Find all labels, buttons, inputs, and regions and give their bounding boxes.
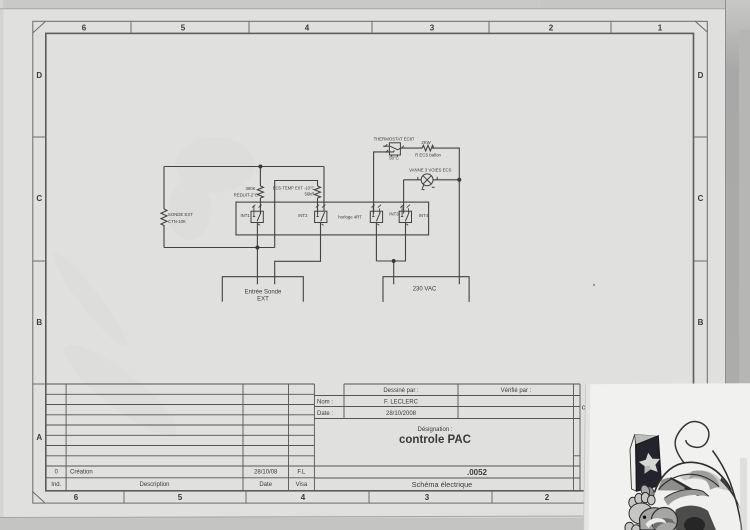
svg-text:horloge 4RT: horloge 4RT [338, 215, 362, 220]
svg-text:A: A [36, 433, 42, 442]
wire INT1 output [256, 223, 258, 285]
pebble ovals below book [644, 485, 656, 499]
shell outline [654, 462, 731, 492]
svg-text:Date: Date [259, 482, 272, 488]
svg-text:.0052: .0052 [467, 468, 488, 477]
shell inner arc [659, 474, 720, 489]
resistor ECS-TEMP 56kR [315, 186, 321, 198]
svg-text:c: c [582, 405, 586, 412]
switch INT2 [315, 205, 327, 226]
wire INT4 output [376, 223, 405, 262]
svg-text:D: D [36, 71, 42, 80]
revision table left [46, 383, 315, 385]
svg-text:controle PAC: controle PAC [399, 434, 471, 446]
svg-text:2KW: 2KW [421, 140, 431, 145]
svg-text:VANNE 3 VOIES ECS: VANNE 3 VOIES ECS [409, 168, 452, 173]
svg-text:Entrée Sonde: Entrée Sonde [245, 289, 282, 295]
svg-text:Vérifié par :: Vérifié par : [501, 388, 532, 394]
svg-text:4: 4 [305, 23, 310, 32]
identification block right [314, 384, 580, 478]
body dark patch [684, 517, 705, 530]
svg-text:CTN-10K: CTN-10K [168, 219, 186, 224]
node vanne/right bus junction [457, 178, 461, 182]
svg-text:REDUIT-2°C: REDUIT-2°C [234, 192, 258, 197]
svg-text:230 VAC: 230 VAC [413, 286, 437, 292]
book left page [630, 434, 636, 491]
svg-text:Nom :: Nom : [317, 399, 333, 405]
wire vanne horizontal [404, 179, 460, 181]
svg-text:4: 4 [301, 493, 306, 502]
svg-text:1: 1 [658, 23, 663, 32]
shell stripe gray hook [689, 471, 719, 490]
back arc right [713, 451, 742, 530]
svg-text:3: 3 [430, 23, 435, 32]
paper speck [593, 284, 595, 286]
faint scan smudges [45, 137, 255, 447]
wire INT3 output [375, 223, 377, 262]
svg-text:C: C [36, 194, 42, 203]
switch INT3 [370, 205, 382, 226]
switch INT1 [251, 205, 263, 226]
svg-text:Dessiné par :: Dessiné par : [383, 388, 419, 394]
connector Entree Sonde EXT [222, 277, 303, 302]
wire ECS loop [275, 181, 318, 248]
wire vanne to INT4 [403, 180, 405, 214]
mouse eye [643, 516, 646, 519]
svg-text:Visa: Visa [296, 482, 308, 488]
grid reference labels bottom [74, 493, 550, 502]
mouse ear [651, 508, 677, 530]
shell stripe gray left [658, 478, 685, 491]
node sonde/INT1 junction [255, 246, 259, 250]
wire resistor to right bus [432, 148, 460, 284]
bottom scanner strip [0, 518, 750, 530]
mouse snout highlight [646, 518, 667, 528]
valve VANNE 3 VOIES ECS [418, 174, 437, 190]
svg-text:INT1: INT1 [240, 213, 250, 218]
mouse head [640, 508, 673, 530]
star on cover [639, 453, 660, 474]
svg-text:6: 6 [82, 23, 87, 32]
resistor SONDE EXT CTN-10K [161, 209, 167, 225]
svg-text:50°C: 50°C [389, 155, 399, 160]
svg-text:Schéma électrique: Schéma électrique [412, 480, 472, 489]
svg-text:Création: Création [70, 470, 93, 476]
wire top bus [164, 166, 324, 168]
book front cover [636, 436, 662, 492]
svg-text:Date :: Date : [317, 411, 333, 417]
node bus/360K junction [258, 165, 262, 169]
svg-text:SONDE EXT: SONDE EXT [168, 212, 193, 217]
mouse foot toes [625, 492, 655, 530]
svg-text:Désignation :: Désignation : [417, 427, 452, 433]
svg-text:F.L: F.L [297, 470, 306, 476]
svg-text:28/10/2008: 28/10/2008 [386, 411, 417, 417]
svg-text:INT3: INT3 [389, 212, 399, 217]
svg-text:INT4: INT4 [419, 213, 429, 218]
svg-text:ECS-TEMP EXT -10°C: ECS-TEMP EXT -10°C [273, 186, 315, 191]
book fold wedge [635, 434, 659, 445]
shell lower gray band [664, 489, 710, 505]
switch INT4 [399, 205, 411, 226]
svg-text:360K: 360K [245, 186, 255, 191]
wire thermostat right to resistor [400, 147, 422, 149]
svg-text:56kR: 56kR [304, 192, 314, 197]
connector 230 VAC [383, 277, 469, 302]
shell dark wedge [668, 477, 703, 496]
wire left sonde branch [163, 167, 165, 248]
grid reference labels top [82, 23, 663, 32]
overlay paper [584, 383, 750, 530]
svg-text:Ind.: Ind. [51, 482, 61, 488]
svg-text:B: B [698, 318, 704, 327]
svg-text:5: 5 [181, 23, 186, 32]
wire to 230VAC [393, 261, 395, 284]
wire top bus drop to INT2 [323, 167, 325, 212]
resistor R 360K REDUIT [257, 186, 263, 198]
star lower facet shading [645, 466, 651, 474]
svg-text:F. LECLERC: F. LECLERC [384, 399, 419, 405]
svg-text:28/10/08: 28/10/08 [254, 470, 278, 476]
wire 360K branch [259, 167, 261, 214]
svg-text:5: 5 [178, 493, 183, 502]
svg-text:2: 2 [549, 23, 554, 32]
mouse inner ear [653, 518, 677, 530]
grid reference labels right [698, 71, 704, 327]
wire bottom sonde horizontal [164, 247, 275, 249]
wire thermostat to INT3 [374, 152, 394, 214]
title block texts [51, 388, 531, 489]
box horloge 4RT [236, 202, 429, 235]
svg-text:C: C [698, 194, 704, 203]
svg-text:EXT: EXT [257, 297, 269, 303]
svg-text:R ECS ballon: R ECS ballon [415, 153, 441, 158]
svg-text:6: 6 [74, 493, 79, 502]
svg-text:Description: Description [139, 482, 169, 488]
svg-text:B: B [36, 318, 42, 327]
body under shell dark [676, 506, 717, 530]
svg-text:2: 2 [545, 493, 550, 502]
sticker right shading [740, 458, 747, 530]
svg-text:3: 3 [425, 493, 430, 502]
shell stripe light gray [680, 470, 730, 491]
node INT3-INT4/230VAC junction [392, 259, 396, 263]
svg-text:INT2: INT2 [298, 213, 308, 218]
svg-text:D: D [698, 71, 704, 80]
resistor R ECS ballon 2KW [422, 145, 433, 151]
grid reference labels left [36, 71, 42, 442]
mouse tail spiral [675, 421, 709, 463]
svg-text:THERMOSTAT EC87: THERMOSTAT EC87 [374, 136, 415, 141]
thermostat EC87 [383, 143, 404, 157]
node junction dots [255, 165, 461, 264]
wire INT2 output [275, 223, 321, 285]
dark sliver right [720, 478, 741, 511]
mouse body shell dome [654, 462, 742, 530]
